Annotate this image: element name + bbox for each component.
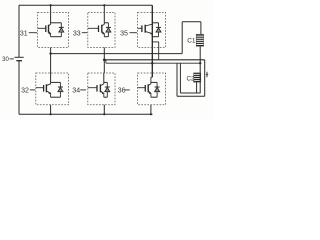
wire: N bus (bottom) — [19, 113, 153, 115]
junction dot leg1-P — [50, 4, 52, 6]
svg-text:C1: C1 — [187, 37, 196, 44]
leader 36 — [125, 89, 130, 91]
junction dot leg1 midpoint / line1 — [49, 52, 51, 54]
wire: outer rect right side — [204, 60, 206, 97]
free-wheeling diode of 33 — [107, 23, 109, 28]
wire: C1 top lead — [200, 22, 202, 34]
module 34 dashed box — [88, 73, 115, 105]
IGBT 34 — [100, 82, 103, 85]
capacitor C1 (stacked plates) — [196, 34, 203, 46]
free-wheeling diode of 31 — [60, 23, 62, 28]
module 31 dashed box — [38, 12, 69, 47]
free-wheeling diode of 35 — [158, 23, 160, 28]
leader 35 — [130, 32, 137, 34]
33 bottom rail (emitter-anode) — [104, 36, 108, 38]
wire: line3 to C1/C2 midpoint — [106, 62, 200, 64]
wire: left bus upper — [18, 5, 20, 57]
31 top rail (collector-cathode) — [51, 22, 62, 24]
junction dot leg2 midpoint / line2 — [103, 58, 106, 61]
wire: outer rect left side — [176, 63, 178, 96]
svg-text:C2: C2 — [187, 76, 195, 83]
IGBT 35 — [145, 23, 152, 26]
svg-text:32: 32 — [21, 88, 29, 95]
31 bottom rail (emitter-anode) — [51, 36, 62, 38]
wire: riser line2-line3 — [105, 60, 107, 63]
svg-text:34: 34 — [72, 88, 80, 95]
junction dot leg2-P — [103, 4, 105, 6]
32 top rail (collector-cathode) — [51, 81, 61, 83]
wire: leg3 emitter stub — [150, 105, 152, 115]
module 35 dashed box — [138, 12, 166, 47]
wire: C2 bottom lead — [196, 82, 198, 93]
wire: leg1 collector stub — [50, 5, 52, 12]
svg-text:35: 35 — [120, 30, 128, 37]
leader line of label 30 — [10, 58, 14, 60]
svg-text:33: 33 — [73, 30, 81, 37]
wire: leg2 emitter stub — [103, 105, 105, 115]
free-wheeling diode of 34 — [106, 82, 108, 87]
wire: outer rect bottom side — [177, 95, 205, 97]
wire: left bus lower — [18, 61, 20, 114]
svg-text:36: 36 — [118, 88, 126, 95]
svg-text:30: 30 — [2, 57, 9, 63]
wire: midpoint chain down along C2 right edge to inner bottom — [199, 63, 201, 93]
module 33 dashed box — [88, 12, 115, 47]
wire: leg2 collector stub — [103, 5, 105, 12]
34 top rail (collector-cathode) — [104, 81, 108, 83]
wire: leg3 jog into module 36 — [151, 76, 152, 78]
32 collector lead — [50, 73, 52, 82]
wire: inner rect left side — [179, 63, 181, 93]
36 top rail (collector-cathode) — [151, 81, 157, 83]
wire: leg2 midpoint stub — [103, 47, 105, 73]
wire: line2 to C2 loop right — [104, 59, 204, 61]
31 collector lead — [50, 12, 52, 22]
35 top rail (collector-cathode) — [152, 22, 158, 24]
junction dot leg1-N — [50, 113, 52, 115]
wire: C1 bottom lead down to line3 — [199, 46, 201, 63]
wire: leg1 midpoint stub — [50, 47, 52, 73]
free-wheeling diode of 36 — [156, 82, 158, 87]
DC source 30 (battery plates) — [15, 56, 24, 58]
free-wheeling diode of 32 — [59, 82, 61, 87]
wire: module35 emitter branch horizontal — [152, 41, 158, 43]
leader 33 — [82, 32, 87, 34]
34 bottom rail (emitter-anode) — [104, 96, 108, 98]
wire: module35 emitter branch vertical — [158, 42, 160, 60]
leader 31 — [29, 32, 37, 34]
junction dot line3 / C1-C2 midpoint — [199, 62, 201, 64]
svg-text:31: 31 — [20, 30, 28, 37]
leader 32 — [30, 89, 35, 91]
polarity mark near C2 — [206, 72, 208, 77]
IGBT 36 — [148, 82, 151, 85]
junction dot leg2-N — [103, 113, 105, 115]
wire: leg1 emitter stub — [50, 105, 52, 115]
module 32 dashed box — [36, 73, 69, 105]
33 collector lead — [103, 12, 105, 22]
36 bottom rail (emitter-anode) — [151, 96, 157, 98]
wire: P bus (top) — [19, 4, 152, 6]
wire: module36 collector lead — [150, 77, 152, 82]
junction dot leg3-N — [150, 113, 152, 115]
junction dot leg3 / line3 — [151, 62, 154, 64]
capacitor C2 (stacked plates) — [194, 73, 201, 83]
IGBT 31 — [49, 23, 51, 26]
wire: C1 loop left side — [181, 22, 183, 54]
34 collector lead — [103, 73, 105, 82]
leader 34 — [80, 89, 86, 91]
IGBT 33 — [102, 23, 105, 26]
32 bottom rail (emitter-anode) — [51, 96, 61, 98]
wire: inner rect bottom side — [180, 92, 200, 94]
module 36 dashed box — [138, 73, 166, 105]
wire: line1 midpoint bus to C1 — [51, 53, 183, 55]
wire: C1 loop top side — [182, 21, 201, 23]
wire: leg3 spine (P bus drop through module 35) — [151, 5, 153, 77]
IGBT 32 — [46, 82, 50, 85]
35 bottom rail (emitter-anode) — [152, 36, 158, 38]
33 top rail (collector-cathode) — [104, 22, 108, 24]
